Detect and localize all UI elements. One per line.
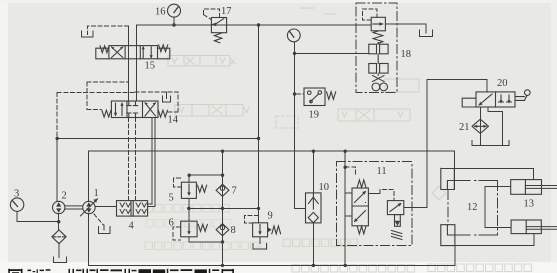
relief valve 5 bbox=[181, 182, 206, 198]
comp 4: double pilot valve block bbox=[117, 201, 148, 217]
tank under valve 9 bbox=[253, 237, 266, 249]
node return line tee 3 bbox=[344, 264, 347, 267]
wire: vertical trunk x=258.5 from top line down to valve 9 node bbox=[258, 25, 260, 208]
wire: bottom pipe to lower cylinder bbox=[455, 234, 534, 246]
pump1 case drain bbox=[94, 214, 104, 225]
wire: double return line from valve14 right box to comp 4 bbox=[148, 118, 155, 207]
tank near valve 14 right pilot bbox=[163, 92, 171, 102]
dashed box around valve 14 left pilot bbox=[87, 82, 128, 110]
relief valve 6 bbox=[181, 221, 208, 237]
node trunk tap to switch 19 bbox=[293, 92, 296, 95]
dash-dot enclosure boxes bbox=[337, 3, 498, 245]
svg-text:18: 18 bbox=[401, 49, 412, 60]
tank under valve 20 / filter 21 bbox=[472, 141, 509, 146]
middle box blocked stubs bbox=[127, 101, 138, 118]
wire: pump1 suction down to bottom return line bbox=[89, 214, 455, 266]
node check column mid tee bbox=[221, 207, 224, 210]
wire: valve 11 bypass riser bbox=[344, 151, 346, 265]
hook fitting upper (cylinder feed elbow) bbox=[441, 168, 455, 189]
node gauge-16 tap on P line bbox=[172, 23, 175, 26]
dashed box around valve 14 right pilot bbox=[135, 92, 178, 112]
pilot dash to pressure switch 19 bbox=[297, 93, 305, 95]
svg-text:6: 6 bbox=[169, 218, 174, 229]
component number labels bbox=[14, 6, 534, 236]
wire: line A pump2 delivery y=138.5 bbox=[57, 138, 258, 140]
pilot of valve 5 bbox=[173, 178, 181, 187]
filter 21 bbox=[472, 119, 488, 133]
suction filter under pump 2 bbox=[52, 230, 66, 244]
relief valve 17 bbox=[211, 18, 226, 43]
right box crossed arrows bbox=[145, 103, 156, 116]
node unit-11 pilot tee bbox=[344, 166, 347, 169]
unit 18: pilot relief + modulating elements bbox=[369, 17, 388, 91]
svg-text:11: 11 bbox=[377, 166, 387, 177]
valve 11: counterbalance spool bbox=[352, 180, 368, 234]
pilot line from line A up to valve 14 pilot box bbox=[56, 93, 58, 137]
wire: line B corner down to hook1 bbox=[453, 151, 455, 189]
pilot of relief 18 bbox=[362, 9, 377, 20]
pilot of valve 9 bbox=[244, 215, 258, 222]
node valve-5/6 mid tee bbox=[187, 207, 190, 210]
wire: hook2 drop to bottom return line bbox=[454, 246, 456, 266]
pressure gauge 3 bbox=[10, 198, 23, 211]
wire: columns of valves 5/6 and checks 7/8 bbox=[222, 151, 224, 265]
ghost bleed-through text rows (decorative) bbox=[145, 205, 229, 213]
svg-text:3: 3 bbox=[14, 189, 19, 200]
pilot drain of valve 15 to top-left tank bbox=[88, 26, 129, 31]
wire: gauge 2 stem and trunk x=294.5 down to comp10 side port bbox=[295, 42, 306, 209]
node valve-5 top tee bbox=[188, 174, 191, 177]
enclosure box 12 bbox=[448, 181, 498, 235]
node P-line to trunk riser bbox=[257, 23, 260, 26]
node line B to unit 11 bbox=[344, 150, 347, 153]
end caps with springs bbox=[102, 110, 111, 117]
node valve-9 feed tee bbox=[257, 207, 260, 210]
node line B to check column bbox=[221, 150, 224, 153]
wire: pump1 outlet to comp4 left side bbox=[95, 205, 117, 207]
wire: pump2 suction down to filter bbox=[58, 214, 60, 230]
wire: gauge3 branch bbox=[17, 211, 59, 221]
wire: filter to tank stem bbox=[58, 244, 60, 258]
wire: line from relief 18 out to top-right tank bbox=[385, 24, 426, 31]
node valve-6 bottom tee bbox=[221, 240, 224, 243]
pressure gauge (on trunk x=294.5) bbox=[287, 29, 300, 42]
wire: gauge 16 stem bbox=[173, 17, 175, 25]
svg-text:19: 19 bbox=[309, 110, 320, 121]
svg-text:7: 7 bbox=[232, 186, 237, 197]
relief valve 9 bbox=[253, 223, 281, 237]
valve 20: manual directional bbox=[462, 90, 530, 107]
check valve 7 bbox=[216, 184, 229, 196]
wire: valve15 passlines down to valve14 bbox=[128, 26, 130, 101]
directional valve 15 bbox=[96, 45, 170, 59]
tank top-left (drain of valve 15 pilot) bbox=[82, 31, 94, 37]
pilot relief inside unit 11 bbox=[387, 201, 403, 240]
directional valve 14 bbox=[102, 101, 168, 118]
svg-text:8: 8 bbox=[231, 225, 236, 236]
wire: pump1 riser x=88.7 bbox=[88, 151, 90, 201]
left box parallel arrows bbox=[116, 103, 123, 116]
svg-text:4: 4 bbox=[129, 221, 135, 232]
svg-text:2: 2 bbox=[62, 191, 67, 202]
pilot of relief 17 bbox=[204, 9, 220, 20]
wire: valve 20 bottom ports to tank bbox=[479, 107, 481, 146]
node line A joins trunk bbox=[257, 137, 260, 140]
wire: top main pressure line P from valve 15 passline to relief 17 and unit 18 bbox=[137, 24, 372, 26]
pump 1 case-drain tank bbox=[99, 225, 111, 234]
drain dashes below valve 14 to comp 4 bbox=[128, 118, 135, 201]
caption (cut off at bottom edge) bbox=[8, 269, 234, 273]
node pump-2 line A corner bbox=[56, 137, 59, 140]
left box crossed arrows bbox=[112, 47, 123, 58]
comp 10: one-way restrictor bbox=[306, 193, 322, 223]
svg-text:20: 20 bbox=[497, 78, 508, 89]
node return line tee 1 bbox=[221, 264, 224, 267]
pressure gauge 16 bbox=[168, 4, 181, 17]
svg-text:1: 1 bbox=[94, 188, 99, 199]
wire: relief 11 outlet right and up to valve 20 bbox=[404, 79, 487, 207]
wire: cap-side pipe pair for cylinders bbox=[485, 187, 511, 228]
pump 2 (fixed) bbox=[53, 201, 65, 213]
shaft double line between pumps bbox=[65, 206, 83, 209]
cylinder 13 upper bbox=[511, 180, 557, 195]
wire: pipe to upper cylinder rod port bbox=[441, 168, 534, 179]
pilot of valve 6 bbox=[173, 227, 181, 240]
node check-7 upper tee bbox=[221, 174, 224, 177]
tank top-right (return of unit 18) bbox=[420, 30, 433, 36]
svg-text:14: 14 bbox=[168, 115, 179, 126]
end caps bbox=[96, 48, 109, 59]
pilot of valve 11 upper cap bbox=[345, 167, 356, 176]
svg-text:21: 21 bbox=[459, 122, 470, 133]
main reservoir tank under filter 2 bbox=[53, 257, 66, 263]
node pump-2 suction tee bbox=[57, 220, 60, 223]
svg-text:16: 16 bbox=[155, 7, 166, 18]
svg-text:13: 13 bbox=[524, 199, 535, 210]
node return line tee 2 bbox=[312, 264, 315, 267]
cylinder 13 lower bbox=[511, 220, 557, 234]
wire: comp10 stems bbox=[312, 151, 314, 193]
enclosure box 11 bbox=[337, 162, 412, 246]
wire: valve 9 stub bbox=[258, 208, 260, 222]
wire: valve 11 pilot take-off to relief bbox=[368, 193, 380, 195]
svg-text:5: 5 bbox=[169, 193, 174, 204]
svg-text:15: 15 bbox=[145, 61, 156, 72]
wire: branch y=53.4 from trunk to unit 18 middle element bbox=[295, 52, 369, 54]
svg-text:17: 17 bbox=[221, 6, 232, 17]
check valve 8 bbox=[216, 224, 229, 236]
wire: line B pump1 delivery y=151.2 bbox=[89, 150, 455, 152]
node line B to comp 10 bbox=[312, 150, 315, 153]
pump 1 (variable) bbox=[65, 199, 98, 216]
ghost bleed-through artifacts bbox=[168, 8, 446, 200]
wire: pump2 riser x=57.2 bbox=[56, 139, 58, 202]
pressure switch 19 bbox=[304, 88, 336, 106]
node trunk tap to unit 18 bbox=[293, 52, 296, 55]
hook fitting lower bbox=[441, 225, 455, 246]
enclosure box 18 bbox=[356, 3, 397, 92]
dashed pilot lines bbox=[57, 9, 394, 240]
svg-text:10: 10 bbox=[319, 182, 330, 193]
right box parallel arrows bbox=[143, 47, 151, 58]
pilot of relief in unit 11 bbox=[380, 190, 394, 201]
svg-text:9: 9 bbox=[268, 211, 273, 222]
svg-text:12: 12 bbox=[467, 202, 478, 213]
